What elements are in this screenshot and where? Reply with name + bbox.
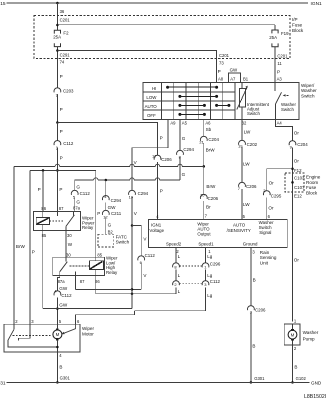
- connector C206 pin 17: [154, 155, 161, 160]
- wire L to relay rail: [175, 287, 177, 293]
- svg-text:Speed2: Speed2: [166, 242, 182, 247]
- rail relay85 motor5 to L net: [43, 308, 132, 310]
- motor stub top: [56, 324, 58, 329]
- svg-text:Br: Br: [206, 205, 211, 210]
- wire F19 drop: [274, 25, 276, 30]
- node ground G301 right: [250, 381, 253, 384]
- wire V branch corner to relay rail: [132, 288, 141, 290]
- svg-text:Washer: Washer: [303, 330, 319, 335]
- power relay link dashed: [49, 220, 63, 222]
- wiper motor box: [4, 324, 80, 352]
- rail relay86 to C112-2: [96, 293, 176, 295]
- svg-text:B2: B2: [108, 229, 114, 234]
- AUTO contacts left: [178, 104, 181, 107]
- svg-text:L: L: [178, 254, 181, 259]
- connector C296 pin 8: [173, 263, 180, 268]
- svg-text:P: P: [60, 74, 63, 79]
- connector C294 pin 8: [177, 150, 184, 155]
- wire Or to RSU pin 6: [266, 197, 268, 219]
- svg-text:C206: C206: [161, 157, 172, 162]
- connector C296 pin 1: [202, 263, 209, 268]
- svg-text:G301: G301: [254, 376, 265, 381]
- wire B rsu to ground: [250, 312, 252, 382]
- svg-text:Or: Or: [294, 158, 300, 163]
- svg-text:P: P: [32, 249, 35, 254]
- svg-text:Motor: Motor: [82, 332, 94, 337]
- wire branch to switch pin A8: [57, 51, 216, 83]
- wire G from A5: [179, 120, 181, 151]
- wire LW mid: [241, 147, 243, 182]
- wire below F2: [56, 47, 58, 88]
- washer pump box: [284, 324, 300, 345]
- svg-text:A9: A9: [170, 121, 176, 126]
- svg-text:G: G: [108, 222, 112, 227]
- svg-text:Speed1: Speed1: [198, 242, 214, 247]
- wire BrW rail to motor park: [14, 165, 55, 167]
- svg-text:G301: G301: [60, 376, 71, 381]
- svg-text:Sensing: Sensing: [260, 255, 277, 260]
- svg-text:G: G: [182, 172, 186, 177]
- svg-text:C295: C295: [271, 194, 282, 199]
- wire Or branch left: [267, 169, 293, 191]
- wire Lg to motor rail: [205, 287, 207, 310]
- connector C112 pin 2: [173, 281, 180, 286]
- svg-text:AUTO: AUTO: [145, 104, 158, 109]
- svg-text:GW: GW: [108, 205, 117, 210]
- wire P to power relay 86: [42, 170, 44, 211]
- wire L net down to motor rail: [131, 294, 133, 309]
- svg-text:HI: HI: [152, 86, 156, 91]
- svg-text:F2: F2: [63, 31, 69, 36]
- connector C112 pin 1: [54, 141, 61, 146]
- wire relay86 down: [95, 276, 97, 294]
- node motor5 rail junction: [56, 307, 59, 310]
- svg-text:Output: Output: [197, 231, 211, 236]
- wire B motor pin 4: [56, 352, 58, 382]
- AUTO contacts right: [215, 104, 218, 107]
- wire V to branch node: [131, 197, 133, 225]
- power relay coil: [42, 211, 44, 217]
- connector C112 pin 5: [71, 190, 78, 195]
- svg-text:Lg: Lg: [207, 273, 213, 278]
- rain sensing unit box: [149, 220, 288, 248]
- svg-text:GW: GW: [59, 286, 68, 291]
- svg-text:87: 87: [80, 279, 85, 284]
- node V joins relay86 rail: [131, 293, 134, 296]
- wire Br to RSU pin 7: [203, 201, 205, 219]
- wire G below connector: [179, 157, 181, 180]
- node junction below F2: [56, 49, 59, 52]
- wire Lg jog to motor pin 6: [76, 311, 135, 325]
- node ground G102: [291, 381, 294, 384]
- wire P stub below connector to RSU pin 4: [157, 162, 159, 220]
- wire rheostat to B2: [241, 107, 243, 120]
- wire B from RSU pin 3: [250, 247, 252, 305]
- svg-text:C112: C112: [210, 279, 221, 284]
- svg-text:Block: Block: [292, 28, 304, 33]
- OFF contacts: [178, 113, 181, 116]
- wire GW from 87a: [57, 276, 59, 291]
- svg-text:Signal: Signal: [259, 230, 271, 235]
- wire blade to A4: [275, 104, 277, 120]
- node V joins relay87 rail: [131, 288, 134, 291]
- ground bus 31: [7, 381, 310, 383]
- svg-text:Unit: Unit: [260, 261, 269, 266]
- svg-text:E12: E12: [294, 194, 302, 199]
- node junction P branch: [56, 121, 59, 124]
- wire P down to C112-1: [56, 123, 58, 141]
- dashed link C112 speeds: [180, 283, 202, 285]
- fuse F19 25A: [272, 30, 278, 33]
- node G rail to FATC branch: [105, 179, 108, 182]
- svg-text:Or: Or: [269, 181, 275, 186]
- connector C206 pin 3: [248, 306, 255, 311]
- svg-text:P: P: [160, 189, 163, 194]
- svg-text:B: B: [294, 364, 297, 369]
- svg-text:30: 30: [67, 233, 72, 238]
- svg-text:B1: B1: [243, 77, 249, 82]
- mechanical link dashed: [13, 335, 53, 337]
- svg-text:G: G: [76, 185, 80, 190]
- svg-text:A5: A5: [182, 121, 188, 126]
- svg-text:BrW: BrW: [206, 148, 216, 153]
- svg-text:C204: C204: [208, 137, 219, 142]
- svg-text:A8: A8: [218, 77, 224, 82]
- svg-text:Room: Room: [306, 180, 318, 185]
- svg-text:G: G: [76, 200, 80, 205]
- node P rail to relay 86: [42, 169, 45, 172]
- wire L from RSU pin 2: [175, 247, 177, 262]
- svg-text:G102: G102: [296, 376, 307, 381]
- pump stub top: [292, 324, 294, 329]
- svg-text:C201: C201: [219, 53, 230, 58]
- svg-text:F19: F19: [281, 31, 289, 36]
- svg-text:LW: LW: [244, 129, 251, 134]
- wiper/washer switch box: [143, 83, 299, 120]
- svg-text:P: P: [218, 69, 221, 74]
- wire V branch down: [140, 263, 142, 290]
- svg-text:M: M: [291, 332, 295, 337]
- svg-text:P: P: [59, 187, 62, 192]
- svg-text:Fuse: Fuse: [306, 185, 317, 190]
- rail Lg speed1: [135, 310, 206, 312]
- svg-text:P: P: [160, 136, 163, 141]
- svg-text:Or: Or: [294, 131, 300, 136]
- svg-text:Relay: Relay: [106, 270, 118, 275]
- svg-text:B: B: [59, 364, 62, 369]
- svg-text:OFF: OFF: [147, 113, 156, 118]
- wire G to power relay 87a: [74, 197, 76, 211]
- wire V main down to relay rails: [131, 226, 133, 309]
- svg-text:GW: GW: [230, 68, 238, 73]
- wire V from A9: [132, 120, 168, 191]
- svg-text:G: G: [182, 136, 186, 141]
- svg-text:C112: C112: [80, 191, 91, 196]
- connector C112 pin 4: [54, 291, 61, 296]
- wire Or from A4: [276, 120, 293, 141]
- node Or branch: [291, 167, 294, 170]
- wire W relay30 to relay30: [65, 231, 67, 258]
- connector C211 pin 12: [102, 210, 109, 215]
- svg-text:Voltage: Voltage: [149, 228, 164, 233]
- svg-text:Or: Or: [294, 257, 300, 262]
- node ground G301 left: [56, 381, 59, 384]
- svg-text:86: 86: [41, 206, 46, 211]
- svg-text:C204: C204: [297, 142, 308, 147]
- svg-text:L8B1502I: L8B1502I: [304, 394, 326, 400]
- svg-text:Sb: Sb: [206, 127, 212, 132]
- svg-text:C206: C206: [255, 308, 266, 313]
- connector C112 pin 6: [138, 256, 145, 261]
- svg-text:C202: C202: [247, 142, 258, 147]
- wire G branch down from rail: [105, 180, 107, 195]
- wire P mid: [56, 95, 58, 123]
- svg-text:C201: C201: [277, 53, 288, 58]
- motor pin 6 internal wire: [64, 324, 76, 333]
- low/high relay contact: [65, 257, 67, 261]
- connector C206 pin 10: [200, 194, 207, 199]
- svg-text:Switch: Switch: [247, 111, 260, 116]
- dashed link C296: [180, 265, 202, 267]
- wire Lg from RSU pin 1: [205, 247, 207, 262]
- power relay contact: [56, 211, 58, 216]
- switch table column lines: [161, 83, 163, 120]
- svg-text:87a: 87a: [58, 279, 66, 284]
- svg-text:Rain: Rain: [260, 250, 270, 255]
- svg-text:BrW: BrW: [206, 184, 216, 189]
- svg-text:P: P: [60, 156, 63, 161]
- svg-text:LW: LW: [243, 162, 250, 167]
- svg-text:GND: GND: [311, 380, 322, 385]
- park switch pivot wire: [8, 340, 57, 347]
- svg-text:25A: 25A: [53, 35, 61, 40]
- svg-text:C103: C103: [294, 176, 305, 181]
- wire Lg mid: [205, 270, 207, 281]
- engine room fuse block dashed box: [285, 173, 304, 192]
- svg-text:31: 31: [0, 380, 6, 386]
- low/high relay coil: [95, 257, 97, 261]
- svg-text:Block: Block: [306, 191, 318, 196]
- svg-text:36: 36: [60, 9, 65, 14]
- wire branch to fuse F19: [57, 24, 275, 26]
- svg-text:73: 73: [219, 60, 224, 65]
- wire G to FATC: [105, 217, 107, 234]
- connector C204 pin 9: [289, 141, 296, 146]
- connector C112 pin 3: [202, 281, 209, 286]
- svg-text:C112: C112: [145, 253, 156, 258]
- node junction above F2: [56, 24, 59, 27]
- fuse F2 25A: [54, 30, 60, 33]
- svg-text:11: 11: [277, 61, 282, 66]
- svg-text:M: M: [56, 332, 60, 337]
- HI contacts: [166, 86, 169, 89]
- svg-text:C294: C294: [138, 191, 149, 196]
- pump stub bottom: [292, 340, 294, 345]
- svg-text:87: 87: [59, 206, 64, 211]
- svg-text:17: 17: [152, 153, 157, 158]
- wire BrW park return from motor pin 2: [13, 166, 15, 325]
- wire BrW to rail: [203, 143, 205, 166]
- svg-text:IGN1: IGN1: [311, 1, 323, 7]
- wire V branch to C112-6: [132, 226, 141, 256]
- wire P from F19 to A3: [274, 47, 276, 83]
- wire from power relay 85 down: [42, 231, 44, 309]
- svg-text:B: B: [253, 277, 256, 282]
- svg-text:74: 74: [60, 60, 65, 65]
- svg-text:C291: C291: [60, 53, 71, 58]
- wiper power relay box: [33, 211, 80, 230]
- node V branch: [131, 224, 134, 227]
- connector C295 pin 2: [263, 191, 270, 196]
- svg-text:C203: C203: [63, 88, 74, 93]
- wire LW from B2: [241, 120, 243, 141]
- wire B pump: [292, 345, 294, 382]
- svg-text:Lg: Lg: [207, 293, 213, 298]
- motor M symbol: [53, 330, 62, 339]
- connector C294 pin 4: [102, 196, 109, 201]
- svg-text:C296: C296: [210, 261, 221, 266]
- connector C203 pin 7: [54, 88, 61, 93]
- svg-text:LW: LW: [243, 202, 250, 207]
- P rail horizontal: [30, 169, 96, 171]
- intermittent adjust rheostat: [239, 89, 245, 108]
- svg-text:L: L: [178, 289, 181, 294]
- washer switch stub from A3: [274, 83, 276, 92]
- svg-text:19: 19: [238, 144, 243, 149]
- svg-text:15: 15: [0, 1, 6, 7]
- svg-text:Engine: Engine: [306, 174, 321, 179]
- wire P branch to RSU pin 4 column: [57, 123, 157, 156]
- svg-text:C206: C206: [208, 196, 219, 201]
- wire Or through fuse block: [292, 173, 294, 322]
- svg-text:Or: Or: [268, 206, 274, 211]
- park switch blade: [8, 329, 14, 340]
- svg-text:Pump: Pump: [303, 337, 315, 342]
- wire P to low-high relay 85: [95, 170, 97, 257]
- svg-text:LOW: LOW: [146, 95, 157, 100]
- wire LW lower: [241, 189, 243, 219]
- I/P fuse block dashed box: [34, 16, 290, 59]
- svg-text:C201: C201: [60, 17, 71, 22]
- connector C206 pin 7: [239, 182, 246, 187]
- motor stub bottom: [56, 340, 58, 352]
- connector C294 pin 19: [129, 190, 136, 195]
- svg-text:A4: A4: [277, 121, 283, 126]
- node BrW joins rail: [203, 165, 206, 168]
- node junction on 15 bus: [56, 2, 59, 5]
- svg-text:P: P: [60, 129, 63, 134]
- wiper low/high relay box: [53, 257, 105, 275]
- washer pump M symbol: [288, 330, 297, 339]
- svg-text:Ground: Ground: [243, 242, 258, 247]
- svg-text:I/P: I/P: [292, 17, 298, 22]
- connector C202 pin 19: [239, 140, 246, 145]
- svg-text:30: 30: [66, 252, 71, 257]
- svg-text:C211: C211: [111, 211, 122, 216]
- wire Or to fuse block: [292, 147, 294, 173]
- washer switch arrow: [283, 94, 286, 96]
- wire BrW down to C206-10: [203, 166, 205, 194]
- svg-text:A6: A6: [205, 121, 211, 126]
- park switch contact 3: [19, 324, 31, 340]
- wire relay87 down: [75, 276, 77, 290]
- svg-text:Fuse: Fuse: [292, 23, 303, 28]
- svg-text:P: P: [277, 70, 280, 75]
- svg-text:87a: 87a: [73, 206, 81, 211]
- svg-text:C107: C107: [294, 185, 305, 190]
- svg-text:Relay: Relay: [82, 225, 94, 230]
- svg-text:A7: A7: [230, 77, 236, 82]
- svg-text:P: P: [60, 107, 63, 112]
- wire P to relay junction: [56, 147, 58, 211]
- svg-text:B: B: [252, 343, 255, 348]
- svg-text:C206: C206: [246, 184, 257, 189]
- wire P down from 15 bus to fuse F2: [56, 3, 58, 30]
- svg-text:/SENSIVITY: /SENSIVITY: [227, 228, 251, 233]
- low/high relay link dashed: [70, 265, 90, 267]
- svg-text:L: L: [178, 273, 181, 278]
- svg-text:C294: C294: [183, 147, 194, 152]
- svg-text:W: W: [68, 242, 73, 247]
- switch table row lines: [143, 91, 235, 93]
- svg-text:Lg: Lg: [207, 254, 213, 259]
- node inside fuse block: [291, 181, 294, 184]
- park switch contact 2: [13, 324, 15, 329]
- svg-text:GW: GW: [59, 302, 68, 307]
- wire GW to motor pin 5: [56, 298, 58, 325]
- wire L mid: [175, 270, 177, 281]
- washer switch blade: [276, 92, 282, 104]
- svg-text:85: 85: [97, 252, 102, 257]
- FATC switch dashed box: [98, 234, 114, 247]
- svg-text:10: 10: [200, 192, 205, 197]
- wire G rail corner to C112-5: [74, 180, 76, 190]
- connector C204 pin 21: [200, 136, 207, 141]
- G rail horizontal: [75, 179, 94, 181]
- svg-text:25A: 25A: [269, 35, 277, 40]
- svg-text:Switch: Switch: [281, 107, 294, 112]
- connector box at pin A7: [229, 73, 241, 83]
- svg-text:P: P: [38, 187, 41, 192]
- LOW contacts: [178, 95, 181, 98]
- svg-text:Switch: Switch: [301, 93, 315, 98]
- svg-text:C112: C112: [63, 141, 74, 146]
- svg-text:C112: C112: [61, 293, 72, 298]
- wire 15 bus (top horizontal): [7, 2, 309, 4]
- svg-text:C294: C294: [111, 198, 122, 203]
- wire Sb from A6: [203, 120, 205, 137]
- svg-text:F12: F12: [294, 168, 302, 173]
- svg-text:Switch: Switch: [116, 240, 130, 245]
- svg-text:P: P: [97, 211, 100, 216]
- svg-text:Wiper: Wiper: [82, 326, 94, 331]
- svg-text:A3: A3: [277, 77, 283, 82]
- wire P park feed to motor pin 3: [29, 170, 31, 325]
- node P rail junction: [56, 169, 59, 172]
- node motor ground junction: [56, 346, 59, 349]
- svg-text:BrW: BrW: [16, 244, 26, 249]
- wire B1 to rheostat: [241, 83, 243, 89]
- wire GW to C211: [105, 202, 107, 210]
- rail L relay87 to V node: [76, 288, 133, 290]
- svg-text:19: 19: [129, 194, 134, 199]
